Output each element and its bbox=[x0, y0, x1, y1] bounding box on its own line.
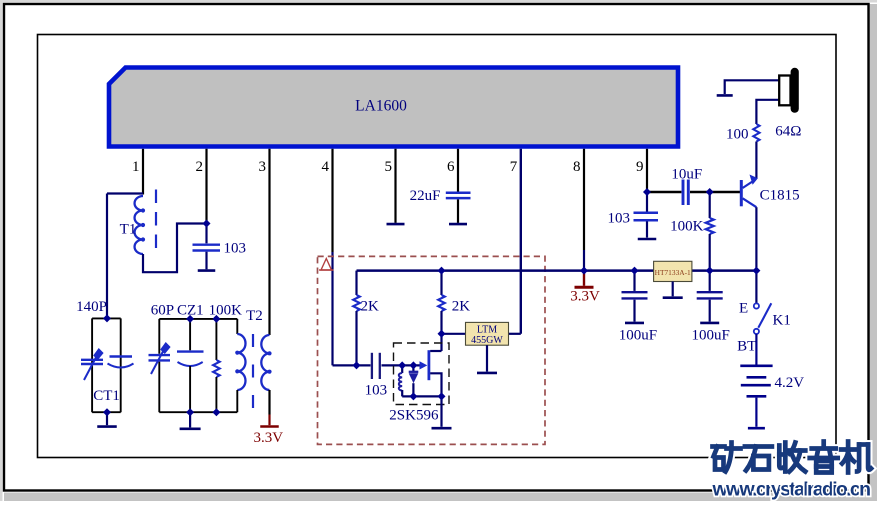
svg-text:3: 3 bbox=[259, 159, 267, 175]
svg-text:10uF: 10uF bbox=[671, 167, 702, 183]
svg-text:CT1: CT1 bbox=[93, 388, 120, 404]
svg-text:100K: 100K bbox=[670, 219, 704, 235]
svg-text:100uF: 100uF bbox=[692, 328, 730, 344]
svg-text:103: 103 bbox=[365, 383, 388, 399]
svg-text:www.crystalradio.cn: www.crystalradio.cn bbox=[712, 479, 872, 501]
svg-text:103: 103 bbox=[608, 211, 631, 227]
svg-text:7: 7 bbox=[510, 159, 518, 175]
svg-text:3.3V: 3.3V bbox=[570, 289, 600, 305]
svg-text:2K: 2K bbox=[452, 299, 471, 315]
svg-text:64Ω: 64Ω bbox=[775, 124, 801, 140]
svg-text:K1: K1 bbox=[773, 313, 791, 329]
svg-text:5: 5 bbox=[385, 159, 393, 175]
svg-text:T1: T1 bbox=[120, 222, 137, 238]
svg-text:100: 100 bbox=[726, 127, 749, 143]
svg-text:140P: 140P bbox=[76, 299, 107, 315]
svg-text:8: 8 bbox=[573, 159, 581, 175]
svg-text:4: 4 bbox=[322, 159, 330, 175]
svg-text:103: 103 bbox=[224, 241, 247, 257]
svg-text:22uF: 22uF bbox=[410, 188, 441, 204]
svg-text:T2: T2 bbox=[246, 308, 263, 324]
svg-text:C1815: C1815 bbox=[760, 188, 800, 204]
svg-text:455GW: 455GW bbox=[471, 335, 503, 346]
svg-text:60P: 60P bbox=[151, 303, 174, 319]
svg-text:2: 2 bbox=[196, 159, 204, 175]
svg-text:6: 6 bbox=[447, 159, 455, 175]
svg-text:4.2V: 4.2V bbox=[775, 375, 805, 391]
svg-text:1: 1 bbox=[132, 159, 140, 175]
svg-text:2K: 2K bbox=[361, 299, 380, 315]
svg-text:3.3V: 3.3V bbox=[254, 430, 284, 446]
svg-text:HT7133A-1: HT7133A-1 bbox=[655, 268, 691, 277]
svg-text:2SK596: 2SK596 bbox=[389, 408, 439, 424]
svg-text:100K: 100K bbox=[209, 303, 243, 319]
svg-text:BT: BT bbox=[737, 339, 756, 355]
svg-text:LTM: LTM bbox=[477, 324, 497, 335]
svg-text:9: 9 bbox=[636, 159, 644, 175]
svg-text:100uF: 100uF bbox=[619, 328, 657, 344]
svg-text:LA1600: LA1600 bbox=[355, 98, 407, 115]
svg-text:E: E bbox=[739, 301, 748, 317]
